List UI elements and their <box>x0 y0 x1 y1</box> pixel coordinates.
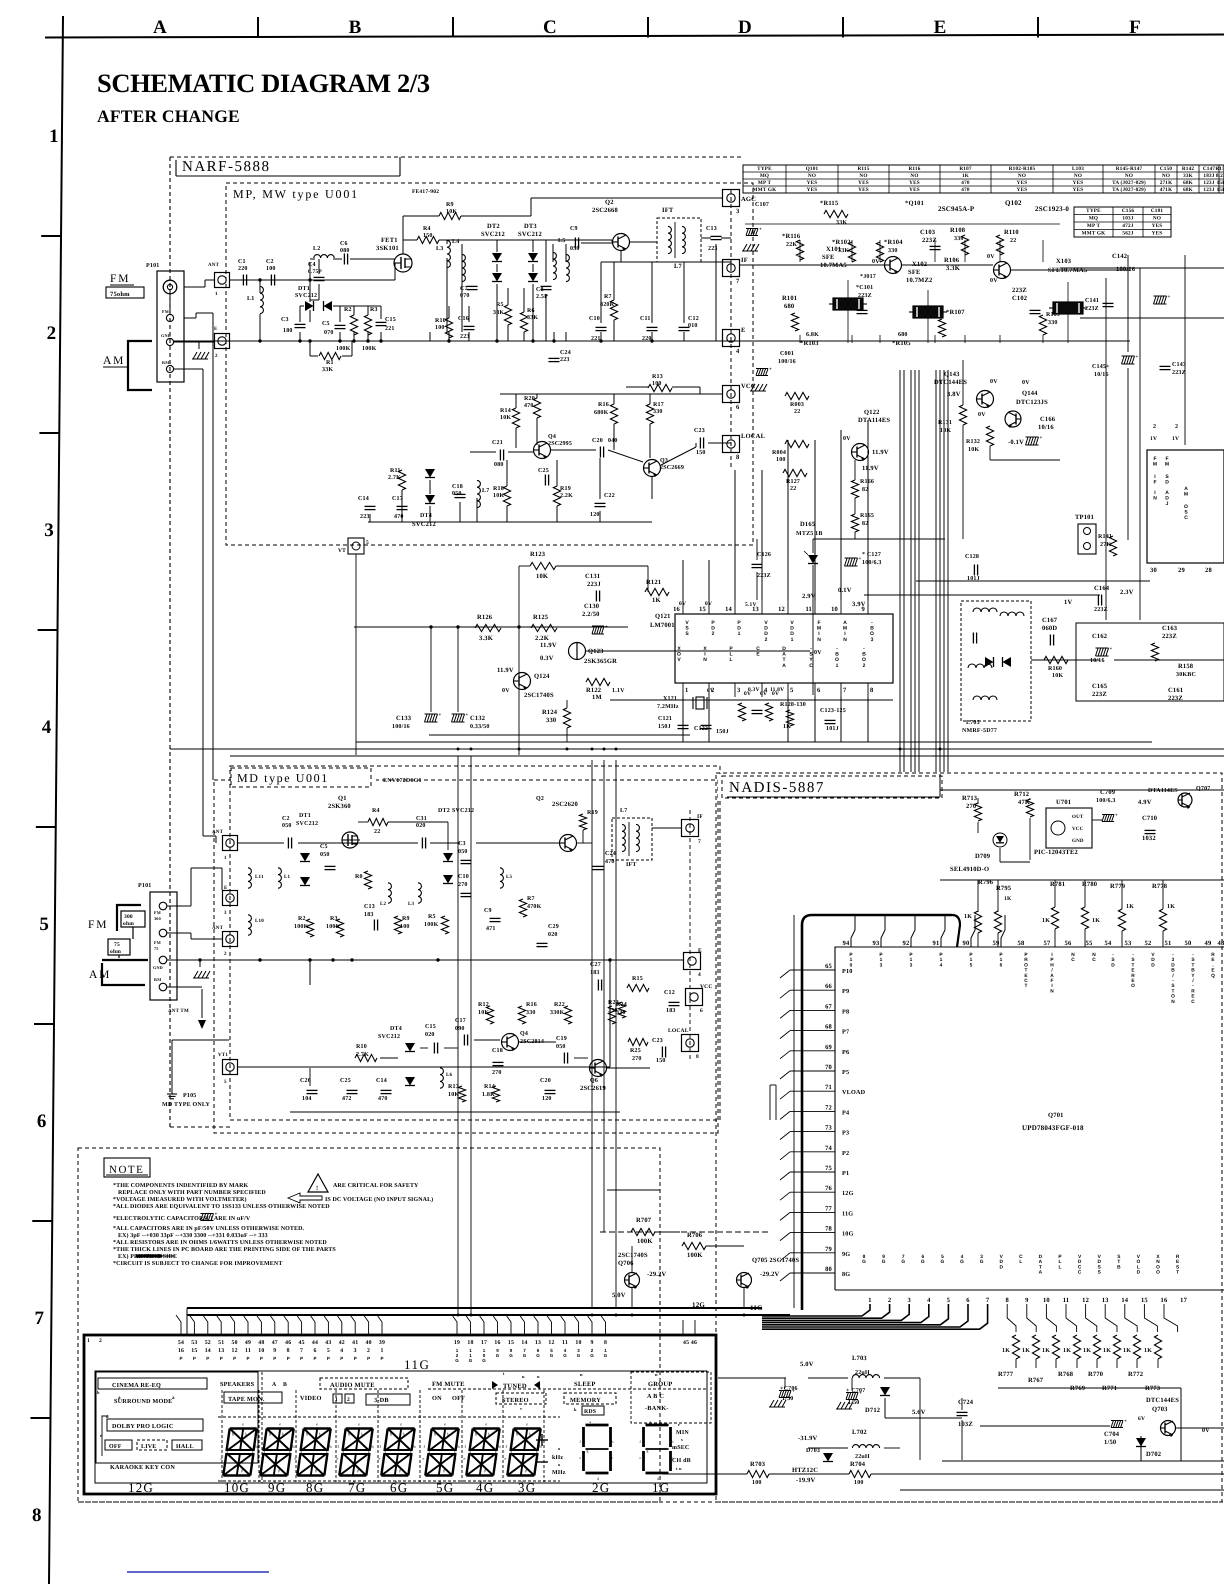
svg-text:53: 53 <box>191 1340 197 1346</box>
svg-text:100K: 100K <box>637 1238 653 1245</box>
svg-text:AMIN: AMIN <box>843 620 847 643</box>
svg-text:MD type U001: MD type U001 <box>237 771 329 785</box>
svg-text:C6: C6 <box>340 241 348 247</box>
capacitor C103 <box>930 245 941 247</box>
svg-text:L7: L7 <box>482 488 489 494</box>
svg-text:2SC2668: 2SC2668 <box>592 207 619 214</box>
svg-text:!: ! <box>316 1185 318 1192</box>
resistor R102 <box>848 242 855 262</box>
svg-text:n: n <box>580 1372 583 1377</box>
svg-text:e: e <box>258 1456 260 1461</box>
wire FET drain <box>402 240 404 254</box>
resistor R5 MD <box>441 916 448 934</box>
svg-text:4: 4 <box>927 1297 931 1304</box>
svg-text:R16: R16 <box>598 402 609 408</box>
svg-text:33K: 33K <box>493 310 504 316</box>
resistor R703 <box>747 1470 769 1477</box>
svg-text:+C706: +C706 <box>780 1386 798 1392</box>
svg-text:P10: P10 <box>842 968 853 975</box>
svg-text:0.3V: 0.3V <box>748 687 760 693</box>
transistor Q101a <box>885 257 902 274</box>
svg-text:C3: C3 <box>458 841 466 847</box>
resistor R13 <box>648 384 672 391</box>
connector ANT1 MD <box>223 836 238 851</box>
svg-text:UPD78043FGF-018: UPD78043FGF-018 <box>1022 1124 1084 1132</box>
svg-text:C156: C156 <box>1122 208 1135 214</box>
resistor R124 <box>563 708 570 728</box>
14-seg digit 8G <box>304 1427 331 1429</box>
svg-text:C24: C24 <box>605 851 616 857</box>
svg-text:SVC212: SVC212 <box>296 821 318 827</box>
inductor L2 <box>314 255 334 258</box>
svg-text:270: 270 <box>966 803 976 810</box>
svg-text:6V: 6V <box>707 688 714 694</box>
svg-text:ANT: ANT <box>208 262 220 268</box>
svg-text:C724: C724 <box>958 1399 974 1406</box>
capacitor C17 <box>397 505 408 507</box>
svg-text:DOLBY PRO LOGIC: DOLBY PRO LOGIC <box>112 1423 174 1430</box>
svg-text:YES: YES <box>1073 180 1084 186</box>
svg-text:8: 8 <box>870 687 874 694</box>
svg-text:040: 040 <box>608 438 618 444</box>
svg-text:Q4: Q4 <box>548 434 556 440</box>
svg-text:100/16: 100/16 <box>778 359 796 365</box>
svg-text:HALL: HALL <box>176 1444 194 1450</box>
svg-text:2: 2 <box>1153 424 1156 430</box>
connector IF <box>723 260 740 277</box>
svg-text:050: 050 <box>458 849 468 855</box>
svg-text:8: 8 <box>32 1505 42 1526</box>
svg-text:330: 330 <box>526 1010 536 1016</box>
svg-text:P: P <box>179 1356 182 1361</box>
svg-text:P: P <box>206 1356 209 1361</box>
connector ANT2 MD <box>223 932 238 947</box>
svg-text:+: + <box>759 228 762 233</box>
transistor Q102b <box>994 262 1011 279</box>
connector VT <box>348 538 364 554</box>
svg-text:6: 6 <box>817 687 821 694</box>
svg-text:C23: C23 <box>694 428 705 434</box>
svg-text:470: 470 <box>961 180 970 186</box>
svg-text:LOCAL: LOCAL <box>741 433 766 440</box>
capacitor C14 <box>365 505 376 507</box>
svg-text:2.7K: 2.7K <box>356 1052 369 1058</box>
svg-text:100K: 100K <box>294 924 309 930</box>
resistor R104 <box>876 242 883 262</box>
svg-text:020: 020 <box>416 823 426 829</box>
svg-text:*ALL RESISTORS ARE IN OHMS 1/6: *ALL RESISTORS ARE IN OHMS 1/6WATTS UNLE… <box>113 1240 327 1246</box>
svg-text:66: 66 <box>825 983 832 990</box>
svg-text:1K: 1K <box>962 173 969 179</box>
svg-text:SVC212: SVC212 <box>378 1034 400 1040</box>
svg-text:104: 104 <box>302 1096 312 1102</box>
svg-text:MHz: MHz <box>552 1470 566 1476</box>
svg-text:R18: R18 <box>493 486 504 492</box>
svg-text:REPLACE ONLY WITH PART NUMBER: REPLACE ONLY WITH PART NUMBER SPECIFIED <box>118 1190 266 1196</box>
svg-text:30KBC: 30KBC <box>1176 672 1196 678</box>
svg-text:SURROUND MODE: SURROUND MODE <box>114 1398 172 1405</box>
svg-text:070: 070 <box>324 330 334 336</box>
svg-text:221: 221 <box>385 326 395 332</box>
svg-text:050: 050 <box>452 491 462 497</box>
svg-text:FM: FM <box>1153 456 1157 468</box>
svg-text:c: c <box>290 1456 292 1461</box>
svg-text:39: 39 <box>379 1340 385 1346</box>
svg-text:b: b <box>672 1440 674 1444</box>
svg-text:0V: 0V <box>705 601 712 607</box>
svg-text:*THE THICK LINES IN PC BOARD A: *THE THICK LINES IN PC BOARD ARE THE PRI… <box>113 1247 336 1253</box>
svg-text:R160: R160 <box>1048 666 1062 672</box>
svg-text:94: 94 <box>843 940 850 947</box>
svg-text:g: g <box>587 1449 589 1453</box>
svg-text:55: 55 <box>1086 940 1093 947</box>
svg-text:L703: L703 <box>852 1355 867 1362</box>
resistor R12 MD <box>486 1006 493 1024</box>
svg-text:8: 8 <box>1005 1297 1009 1304</box>
svg-text:59: 59 <box>993 940 1000 947</box>
svg-text:4G: 4G <box>476 1480 494 1495</box>
note arrow symbol <box>288 1193 322 1203</box>
resistor R706 <box>682 1242 706 1249</box>
svg-text:C9: C9 <box>484 908 492 914</box>
svg-text:0.1V: 0.1V <box>838 587 852 594</box>
svg-text:Q707: Q707 <box>1196 786 1210 792</box>
svg-text:C5: C5 <box>320 844 328 850</box>
svg-text:090: 090 <box>455 1026 465 1032</box>
svg-text:470: 470 <box>524 403 534 409</box>
svg-text:L5: L5 <box>506 874 513 880</box>
svg-text:Q701: Q701 <box>1048 1112 1064 1119</box>
svg-text:1K: 1K <box>783 724 791 730</box>
diode DT4 <box>425 469 435 478</box>
svg-text:P9: P9 <box>842 988 849 995</box>
svg-text:P: P <box>327 1356 330 1361</box>
svg-text:0V: 0V <box>843 436 851 442</box>
svg-text:e: e <box>316 1422 318 1427</box>
wire IF strip <box>740 264 884 266</box>
svg-text:223Z: 223Z <box>1085 306 1099 312</box>
svg-text:GND: GND <box>1072 838 1084 844</box>
svg-text:SFE: SFE <box>822 254 835 261</box>
svg-text:SFE: SFE <box>908 269 921 276</box>
svg-text:B: B <box>283 1382 287 1388</box>
svg-text:18: 18 <box>467 1340 473 1346</box>
svg-text:470: 470 <box>378 1096 388 1102</box>
svg-text:*R115: *R115 <box>820 200 839 207</box>
connector VCC MD <box>686 989 703 1006</box>
connector E <box>723 330 740 347</box>
svg-text:9G: 9G <box>842 1251 850 1258</box>
svg-text:2: 2 <box>888 1297 891 1304</box>
svg-text:VIDEO: VIDEO <box>300 1395 322 1402</box>
svg-text:42: 42 <box>339 1340 345 1346</box>
svg-text:Q143: Q143 <box>944 371 960 378</box>
svg-text:C17: C17 <box>392 496 403 502</box>
svg-text:R7: R7 <box>604 294 612 300</box>
svg-text:69: 69 <box>825 1044 832 1051</box>
svg-text:10/16: 10/16 <box>1038 424 1054 431</box>
resistor R110 <box>996 235 1003 255</box>
svg-text:100/16: 100/16 <box>392 724 410 730</box>
svg-text:2.2K: 2.2K <box>560 493 573 499</box>
junctions <box>258 339 261 342</box>
svg-text:16: 16 <box>494 1340 500 1346</box>
svg-text:71: 71 <box>825 1084 832 1091</box>
resistor R123 <box>530 562 556 569</box>
svg-text:0.3V: 0.3V <box>540 655 554 662</box>
svg-text:C141: C141 <box>1085 298 1099 304</box>
svg-text:k: k <box>574 1407 577 1412</box>
svg-text:R768: R768 <box>1058 1371 1074 1378</box>
inductor L6 <box>440 1068 443 1088</box>
svg-text:*R102: *R102 <box>832 239 851 246</box>
resistor R10 <box>445 318 452 338</box>
svg-text:R13: R13 <box>652 374 663 380</box>
svg-text:C130: C130 <box>584 603 599 610</box>
wires P101 MD <box>167 905 191 907</box>
svg-text:5.6V: 5.6V <box>912 1409 926 1416</box>
svg-text:t: t <box>503 1371 505 1376</box>
svg-text:p: p <box>278 1468 280 1473</box>
wire right verticals <box>1105 278 1107 620</box>
svg-text:R22: R22 <box>554 1002 565 1008</box>
svg-text:P3: P3 <box>842 1130 849 1137</box>
svg-text:NO: NO <box>1153 216 1161 222</box>
svg-text:P: P <box>313 1356 316 1361</box>
svg-text:AUDIO MUTE: AUDIO MUTE <box>330 1382 375 1389</box>
svg-text:R3: R3 <box>330 916 338 922</box>
svg-text:LIVE: LIVE <box>141 1444 156 1450</box>
svg-text:ANT: ANT <box>212 925 224 931</box>
resistor R22 MD <box>564 1006 571 1024</box>
capacitor C133 <box>425 714 428 722</box>
resistor R2 MD <box>306 919 313 937</box>
svg-text:2.7K: 2.7K <box>388 475 401 481</box>
svg-text:-29.2V: -29.2V <box>647 1271 667 1278</box>
svg-text:12: 12 <box>548 1340 554 1346</box>
svg-text:t u: t u <box>676 1466 682 1471</box>
capacitor C3 <box>295 323 306 325</box>
svg-text:1K: 1K <box>1022 1348 1030 1354</box>
svg-text:C13: C13 <box>364 904 375 910</box>
svg-text:56: 56 <box>1065 940 1072 947</box>
wires MD lower <box>309 960 311 985</box>
svg-text:7G: 7G <box>348 1480 366 1495</box>
capacitor C11 <box>647 326 658 328</box>
svg-text:C128: C128 <box>965 554 979 560</box>
svg-text:Q703: Q703 <box>1152 1406 1168 1413</box>
svg-text:E: E <box>741 327 746 334</box>
svg-text:11.9V: 11.9V <box>862 465 879 472</box>
svg-text:12: 12 <box>1082 1297 1089 1304</box>
svg-text:ohm: ohm <box>123 921 134 927</box>
display panel pins row <box>176 1315 181 1335</box>
svg-text:13: 13 <box>218 1348 224 1354</box>
svg-text:FM MUTE: FM MUTE <box>432 1381 465 1388</box>
svg-text:10/16: 10/16 <box>1094 372 1109 378</box>
svg-text:67: 67 <box>825 1003 832 1010</box>
svg-text:DTC144ES: DTC144ES <box>934 379 967 386</box>
svg-text:5G: 5G <box>436 1480 454 1495</box>
svg-text:mSEC: mSEC <box>672 1445 689 1451</box>
svg-text:2.2/50: 2.2/50 <box>582 611 600 618</box>
VCC row wires <box>500 393 723 395</box>
wire right mid <box>916 580 1150 582</box>
svg-text:1/50: 1/50 <box>782 1396 793 1402</box>
svg-text:R128-130: R128-130 <box>780 702 806 708</box>
capacitor C13 <box>711 235 722 237</box>
svg-text:+: + <box>466 713 469 718</box>
svg-text:6: 6 <box>736 404 740 411</box>
svg-text:X101: X101 <box>826 246 841 253</box>
svg-text:223Z: 223Z <box>858 293 872 299</box>
svg-text:R25: R25 <box>630 1048 641 1054</box>
svg-text:MP, MW type U001: MP, MW type U001 <box>233 187 359 201</box>
svg-text:1K: 1K <box>1167 904 1175 910</box>
svg-text:0V: 0V <box>1202 1428 1210 1434</box>
svg-text:C145+: C145+ <box>1092 364 1110 370</box>
svg-text:R20: R20 <box>524 396 535 402</box>
svg-text:1K: 1K <box>1103 1348 1111 1354</box>
svg-text:R7: R7 <box>527 896 535 902</box>
FM bracket MD <box>117 905 141 931</box>
transistor Q3 2SC2669 <box>644 460 661 477</box>
wires LM7001 top <box>682 560 684 600</box>
svg-text:R10: R10 <box>435 318 446 324</box>
svg-text:50: 50 <box>231 1340 237 1346</box>
svg-text:C2: C2 <box>266 259 274 265</box>
svg-text:2SC1740S: 2SC1740S <box>618 1252 648 1259</box>
svg-text:100: 100 <box>854 1480 864 1486</box>
svg-text:10/16: 10/16 <box>1090 658 1105 664</box>
diode D709 <box>993 833 1007 847</box>
svg-text:57: 57 <box>1044 940 1051 947</box>
svg-text:C14: C14 <box>358 496 369 502</box>
svg-text:VLOAD: VLOAD <box>842 1089 866 1096</box>
capacitor C2 <box>270 275 272 286</box>
svg-text:R777: R777 <box>998 1371 1014 1378</box>
svg-text:330: 330 <box>1048 320 1058 326</box>
svg-text:1K: 1K <box>1002 1348 1010 1354</box>
svg-text:8: 8 <box>736 454 740 461</box>
svg-text:e: e <box>485 1422 487 1427</box>
svg-text:1: 1 <box>49 126 59 147</box>
svg-text:R125: R125 <box>533 614 549 621</box>
svg-text:54: 54 <box>178 1340 184 1346</box>
resistor R3 MD <box>336 919 343 937</box>
AM bracket MD <box>102 959 148 961</box>
svg-text:IF: IF <box>697 814 703 820</box>
svg-text:1: 1 <box>215 291 218 297</box>
svg-text:8.2K: 8.2K <box>1216 173 1224 179</box>
svg-text:7: 7 <box>34 1308 44 1329</box>
inductor L2 MD <box>388 883 391 903</box>
14-seg digit 6G <box>388 1427 415 1429</box>
svg-text:p: p <box>241 1468 243 1473</box>
svg-text:D709: D709 <box>975 853 991 860</box>
svg-text:SVC212: SVC212 <box>518 231 542 238</box>
svg-text:*ELECTROLYTIC CAPACITORS(: *ELECTROLYTIC CAPACITORS( ) ARE IN uF/V <box>113 1215 251 1222</box>
svg-text:14: 14 <box>205 1348 211 1354</box>
resistor R121 <box>645 588 669 595</box>
capacitor C24 <box>549 357 560 359</box>
svg-text:14: 14 <box>1121 1297 1128 1304</box>
svg-text:RDS: RDS <box>584 1409 596 1415</box>
svg-text:8G: 8G <box>306 1480 324 1495</box>
note ecap symbol <box>201 1214 204 1221</box>
svg-text:820K: 820K <box>600 302 615 308</box>
tank vertical wires <box>461 244 463 332</box>
14-seg digit 10G <box>230 1427 257 1429</box>
svg-text:150: 150 <box>423 233 433 239</box>
svg-text:Q144: Q144 <box>1022 390 1038 397</box>
svg-text:IF: IF <box>741 257 748 264</box>
connector VCC <box>723 386 740 403</box>
resistor R160 <box>1044 656 1068 663</box>
svg-text:p: p <box>484 1468 486 1473</box>
svg-text:NC: NC <box>1092 952 1096 963</box>
svg-text:IS DC VOLTAGE (NO INPUT SIGN: IS DC VOLTAGE (NO INPUT SIGNAL) <box>325 1196 433 1203</box>
svg-text:*R103: *R103 <box>800 340 819 347</box>
svg-text:680: 680 <box>784 303 794 310</box>
svg-text:330: 330 <box>653 409 663 415</box>
svg-text:33K: 33K <box>322 367 333 373</box>
svg-text:16: 16 <box>1161 1297 1168 1304</box>
svg-text:P105: P105 <box>183 1093 196 1099</box>
svg-text:330: 330 <box>546 717 556 724</box>
svg-text:14: 14 <box>521 1340 527 1346</box>
svg-text:060D: 060D <box>1042 625 1057 632</box>
svg-text:C18: C18 <box>492 1048 503 1054</box>
svg-text:C163: C163 <box>1162 625 1178 632</box>
svg-text:471: 471 <box>486 926 496 932</box>
svg-text:52: 52 <box>1145 940 1152 947</box>
svg-text:330K: 330K <box>550 1010 565 1016</box>
resistor R1 <box>319 352 341 359</box>
svg-text:44: 44 <box>312 1340 318 1346</box>
resistor R15 MD <box>627 984 649 991</box>
svg-text:11: 11 <box>562 1340 568 1346</box>
svg-text:+: + <box>1168 295 1171 300</box>
svg-text:*ALL CAPACITORS ARE IN pF/50V: *ALL CAPACITORS ARE IN pF/50V UNLESS OTH… <box>113 1226 305 1232</box>
svg-text:100/6.3: 100/6.3 <box>862 560 882 566</box>
resistor R7 <box>610 300 617 320</box>
svg-text:22uH: 22uH <box>855 1370 870 1376</box>
svg-text:R15: R15 <box>632 976 643 982</box>
svg-text:*ALL DIODES ARE EQUIVALENT TO: *ALL DIODES ARE EQUIVALENT TO 1SS133 UNL… <box>113 1204 330 1210</box>
svg-text:46: 46 <box>285 1340 291 1346</box>
svg-text:1K: 1K <box>964 914 972 920</box>
svg-text:DT2: DT2 <box>487 223 500 230</box>
svg-text:b: b <box>330 1444 332 1449</box>
7-seg digit 1G <box>646 1424 669 1427</box>
svg-text:Q1: Q1 <box>338 795 347 802</box>
svg-text:E: E <box>214 326 218 332</box>
svg-text:6: 6 <box>966 1297 970 1304</box>
svg-text:100/6.3: 100/6.3 <box>1096 798 1116 804</box>
svg-text:e: e <box>423 1456 425 1461</box>
svg-text:C107: C107 <box>755 202 769 208</box>
resistor R713 <box>974 803 981 821</box>
svg-text:103Z: 103Z <box>958 1421 973 1428</box>
svg-text:75: 75 <box>154 946 159 951</box>
svg-text:2: 2 <box>47 323 57 344</box>
svg-text:12G: 12G <box>692 1301 705 1309</box>
svg-text:+: + <box>439 713 442 718</box>
svg-text:P5: P5 <box>842 1069 849 1076</box>
svg-text:R158: R158 <box>1178 663 1194 670</box>
svg-text:L5: L5 <box>558 238 565 244</box>
